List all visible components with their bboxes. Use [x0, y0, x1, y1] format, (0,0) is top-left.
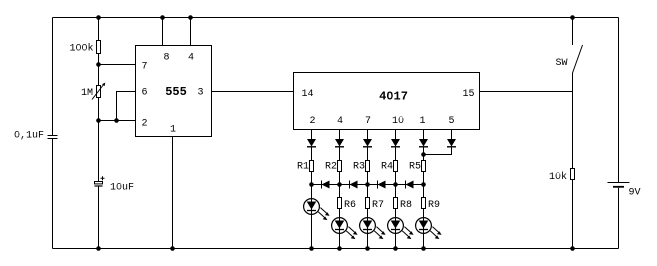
svg-text:R7: R7 — [372, 200, 384, 211]
svg-text:R3: R3 — [353, 162, 365, 173]
svg-text:R8: R8 — [400, 200, 412, 211]
wire 4017 pin 10 stub — [395, 130, 397, 140]
svg-text:R9: R9 — [428, 200, 440, 211]
wire R4 to diode row — [395, 172, 397, 185]
svg-text:2: 2 — [141, 119, 147, 130]
node bottom rail col2 — [337, 246, 342, 251]
node pin4 top rail — [188, 15, 193, 20]
wire pin 1 — [172, 136, 174, 249]
node pin1 bottom rail — [170, 246, 175, 251]
wire pin 2 — [99, 120, 136, 122]
node diode row col1 — [309, 182, 314, 187]
svg-text:9V: 9V — [629, 188, 641, 199]
wire pin 4 — [190, 18, 192, 46]
wire col3 to bottom rail — [367, 185, 369, 249]
wire pin 15 to switch — [480, 91, 573, 93]
wire col2 to bottom rail — [339, 185, 341, 249]
node bottom rail col4 — [393, 246, 398, 251]
node pin6 jog junction — [114, 118, 119, 123]
node top rail / 100k junction — [96, 15, 101, 20]
node pin7 junction — [96, 62, 101, 67]
wire 4017 pin 4 stub — [339, 130, 341, 140]
wire col5 to bottom rail — [423, 185, 425, 249]
wire R1 to diode row — [311, 172, 313, 185]
svg-text:0,1uF: 0,1uF — [14, 131, 44, 142]
wire R5 to diode row — [423, 172, 425, 185]
wire D2 to R2 — [339, 147, 341, 160]
LED LED4 — [388, 218, 414, 240]
resistor R8 — [394, 198, 413, 212]
node diode row col3 — [365, 182, 370, 187]
diode D8 — [350, 181, 358, 189]
wire junction down to 10uF — [98, 121, 100, 182]
wire col1 to bottom rail — [311, 185, 313, 249]
svg-text:R4: R4 — [381, 162, 393, 173]
resistor R7 — [366, 198, 385, 212]
wire R3 to diode row — [367, 172, 369, 185]
wire junction to pot — [98, 65, 100, 86]
wire right rail upper — [618, 18, 620, 183]
wire diode row col1-col2 — [312, 184, 340, 186]
wire left rail upper — [52, 18, 54, 136]
svg-text:7: 7 — [365, 116, 371, 127]
capacitor C1 0,1uF — [14, 131, 58, 142]
wire switch to 10k — [572, 73, 574, 169]
svg-text:R6: R6 — [344, 200, 356, 211]
svg-text:8: 8 — [163, 53, 169, 64]
wire 4017 pin 2 stub — [311, 130, 313, 140]
node bottom rail col1 — [309, 246, 314, 251]
wire pin 3 to pin 14 — [211, 91, 293, 93]
LED LED2 — [332, 218, 358, 240]
node diode row col2 — [337, 182, 342, 187]
op-amp U1 555 body — [136, 46, 212, 137]
svg-text:4017: 4017 — [379, 90, 408, 104]
wire D3 to R3 — [367, 147, 369, 160]
svg-text:R5: R5 — [409, 162, 421, 173]
svg-text:555: 555 — [165, 85, 187, 99]
svg-text:10uF: 10uF — [110, 183, 134, 194]
wire top rail — [53, 17, 619, 19]
svg-text:100k: 100k — [69, 43, 93, 55]
wire left rail lower — [52, 139, 54, 249]
wire pot to pin2 junction — [98, 97, 100, 121]
wire 100k top feed — [98, 18, 100, 41]
wire D6 jog to column 5 — [424, 147, 452, 155]
svg-text:1: 1 — [419, 116, 425, 127]
diode D10 — [406, 181, 414, 189]
resistor 100k — [69, 41, 100, 55]
node pin2 junction — [96, 118, 101, 123]
wire 100k to junction — [98, 54, 100, 65]
LED LED1 — [304, 199, 330, 221]
svg-text:4: 4 — [188, 53, 194, 64]
resistor R4 — [381, 161, 398, 173]
svg-text:7: 7 — [141, 62, 147, 73]
svg-text:15: 15 — [463, 89, 475, 100]
svg-text:1: 1 — [170, 125, 176, 136]
wire 10k to bottom rail — [572, 180, 574, 249]
svg-text:1M: 1M — [81, 88, 93, 99]
wire pin 6 jog — [117, 92, 136, 121]
svg-text:5: 5 — [448, 116, 454, 127]
LED LED3 — [360, 218, 386, 240]
wire 4017 pin 5 stub — [451, 130, 453, 140]
wire pin 7 — [99, 64, 136, 66]
resistor 10k — [549, 169, 575, 184]
node bottom rail col5 — [421, 246, 426, 251]
wire 4017 pin 1 stub — [423, 130, 425, 140]
svg-text:2: 2 — [309, 116, 315, 127]
svg-text:R2: R2 — [325, 162, 337, 173]
diode D1 — [307, 139, 316, 147]
node pin8 top rail — [160, 15, 165, 20]
svg-text:6: 6 — [141, 88, 147, 99]
wire bottom rail — [53, 248, 619, 250]
node D6 join R5 — [421, 152, 426, 157]
diode D9 — [378, 181, 386, 189]
resistor R2 — [325, 161, 342, 173]
node top rail switch — [570, 15, 575, 20]
wire R2 to diode row — [339, 172, 341, 185]
resistor R5 — [409, 161, 426, 173]
wire pin 8 — [162, 18, 164, 46]
svg-text:4: 4 — [337, 116, 343, 127]
wire 4017 pin 7 stub — [367, 130, 369, 140]
wire right rail lower — [618, 188, 620, 249]
wire D4 to R4 — [395, 147, 397, 160]
diode D5 — [419, 139, 428, 147]
wire D5 to R5 — [423, 147, 425, 160]
resistor R6 — [338, 198, 357, 212]
resistor R3 — [353, 161, 370, 173]
wire D1 to R1 — [311, 147, 313, 160]
node diode row col4 — [393, 182, 398, 187]
LED LED5 — [416, 218, 442, 240]
switch SW — [555, 18, 582, 74]
wire 10uF to bottom rail — [98, 186, 100, 249]
wire diode row col3-col4 — [368, 184, 396, 186]
node bottom rail col3 — [365, 246, 370, 251]
node bottom rail 10k — [570, 246, 575, 251]
node bottom rail C2 — [96, 246, 101, 251]
diode D6 — [447, 139, 456, 147]
resistor R9 — [422, 198, 441, 212]
diode D4 — [391, 139, 400, 147]
resistor R1 — [297, 161, 314, 173]
battery BT1 9V — [608, 183, 641, 199]
svg-text:SW: SW — [555, 58, 567, 69]
diode D2 — [335, 139, 344, 147]
wire diode row col2-col3 — [340, 184, 368, 186]
svg-text:R1: R1 — [297, 162, 309, 173]
diode D7 — [322, 181, 330, 189]
diode D3 — [363, 139, 372, 147]
IC U2 4017 body — [294, 73, 480, 130]
svg-text:3: 3 — [197, 88, 203, 99]
potentiometer 1M — [81, 83, 105, 100]
wire diode row col4-col5 — [396, 184, 424, 186]
node diode row col5 — [421, 182, 426, 187]
svg-text:14: 14 — [302, 89, 314, 100]
capacitor C2 10uF — [95, 176, 135, 193]
wire col4 to bottom rail — [395, 185, 397, 249]
